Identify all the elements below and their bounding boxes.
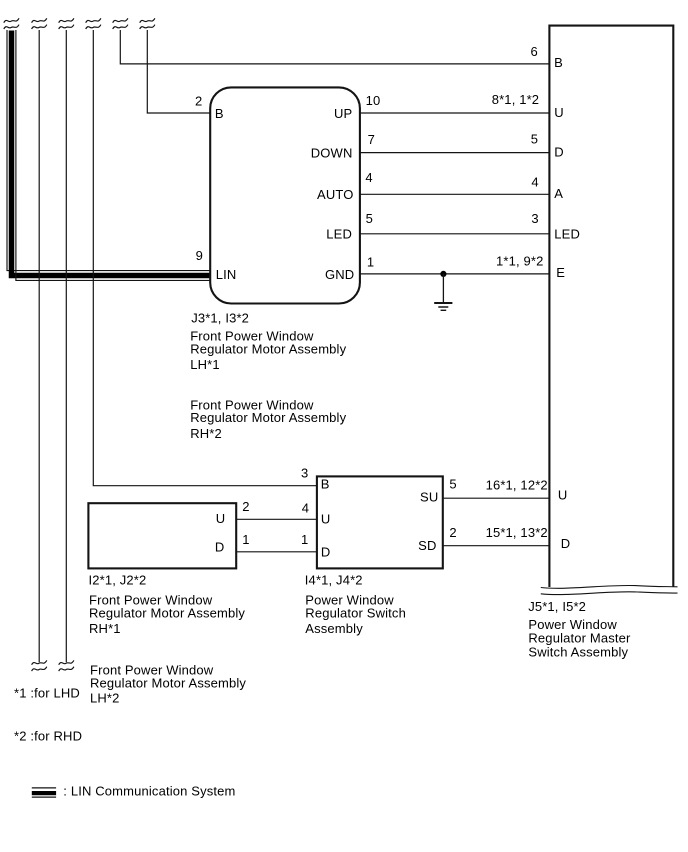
svg-text:*2 :for RHD: *2 :for RHD [14,729,82,744]
svg-text:A: A [554,186,563,201]
svg-text:LED: LED [326,227,352,242]
wire 5 vertical then right to master switch pin 6 B [120,30,549,64]
connector I2*1/J2*2 Front Power Window Regulator Motor Assembly RH (box) [88,503,236,568]
svg-text:UP: UP [334,106,352,121]
wire GND: J3 pin 1 to master switch pin 1*1/9*2 E [360,273,550,275]
svg-text:LED: LED [554,226,580,241]
svg-text:B: B [554,55,563,70]
wire UP: J3 pin 10 to master switch pin 8*1/1*2 U [360,112,550,114]
svg-text:GND: GND [325,267,354,282]
svg-text:4: 4 [302,501,309,516]
svg-text:LH*2: LH*2 [90,691,120,706]
svg-text:2: 2 [449,525,456,540]
svg-text:AUTO: AUTO [317,187,353,202]
svg-text:Regulator Motor Assembly: Regulator Motor Assembly [89,606,245,621]
wire break, wire 5 top [113,18,128,29]
svg-text:U: U [321,512,331,527]
svg-text:I2*1, J2*2: I2*1, J2*2 [89,572,147,587]
svg-text:Switch Assembly: Switch Assembly [528,645,628,660]
connector J5*1/I5*2 Power Window Regulator Master Switch Assembly (tall box, broken bottom) [549,26,673,587]
svg-text:9: 9 [196,248,203,263]
svg-text:J3*1, I3*2: J3*1, I3*2 [191,311,249,326]
svg-text:15*1, 13*2: 15*1, 13*2 [486,525,548,540]
svg-text:SD: SD [418,538,436,553]
svg-text:16*1, 12*2: 16*1, 12*2 [486,477,548,492]
svg-text:Regulator Motor Assembly: Regulator Motor Assembly [190,342,346,357]
wire U: I2 pin 2 to switch assembly pin 4 U [236,518,317,520]
break wave at master switch box bottom [541,585,678,594]
svg-text:U: U [216,511,226,526]
svg-text:D: D [554,144,564,159]
wire 6 vertical then right to J3 pin 2 B [147,30,210,113]
svg-text:U: U [558,487,568,502]
ground symbol [434,303,452,310]
wire 2 vertical (to bottom break) [38,30,40,662]
wire AUTO: J3 pin 4 to master switch pin 4 A [360,193,550,195]
svg-text:D: D [561,536,571,551]
wire break, wire 2 bottom [32,660,47,671]
wire 3 vertical (to bottom break) [65,30,67,662]
svg-text:4: 4 [531,175,538,190]
svg-text:I4*1, J4*2: I4*1, J4*2 [305,572,363,587]
svg-text:5: 5 [531,131,538,146]
wire D: I2 pin 1 to switch assembly pin 1 D [236,551,317,553]
svg-text:2: 2 [242,499,249,514]
svg-text:U: U [554,105,564,120]
wire break, LIN bus wire top [4,18,19,29]
svg-text:7: 7 [368,132,375,147]
svg-text:Regulator Motor Assembly: Regulator Motor Assembly [90,676,246,691]
wire break, wire 4 top [86,18,101,29]
wire break, wire 3 bottom [59,660,74,671]
svg-text:3: 3 [531,211,538,226]
svg-text:J5*1, I5*2: J5*1, I5*2 [528,599,586,614]
svg-text:B: B [321,476,330,491]
svg-text:LH*1: LH*1 [190,357,220,372]
wire break, wire 2 top [32,18,47,29]
svg-text:RH*2: RH*2 [190,426,222,441]
svg-text:Assembly: Assembly [305,621,363,636]
wire SU: switch assembly pin 5 to master switch pin 16*1/12*2 U [443,497,550,499]
svg-text:B: B [215,106,224,121]
wire 4 vertical then right to switch assembly pin 3 B [93,30,317,486]
wire LIN bus (triple line) from top break to J3 pin 9 LIN [7,30,210,280]
wire break, wire 3 top [59,18,74,29]
svg-text:SU: SU [420,489,438,504]
svg-text:1*1, 9*2: 1*1, 9*2 [496,254,543,269]
svg-text:: LIN Communication System: : LIN Communication System [63,783,235,798]
connector J3*1/I3*2 Front Power Window Regulator Motor Assembly LH (rounded box) [210,87,360,303]
svg-text:3: 3 [301,466,308,481]
svg-text:Regulator Motor Assembly: Regulator Motor Assembly [190,410,346,425]
svg-text:D: D [321,544,331,559]
svg-text:1: 1 [242,532,249,547]
svg-text:5: 5 [366,211,373,226]
svg-text:RH*1: RH*1 [89,621,121,636]
wire ground drop [442,274,444,302]
svg-text:1: 1 [367,255,374,270]
svg-text:1: 1 [301,532,308,547]
svg-text:2: 2 [195,93,202,108]
wire SD: switch assembly pin 2 to master switch pin 15*1/13*2 D [443,545,550,547]
svg-text:Regulator Master: Regulator Master [528,630,631,645]
svg-text:E: E [556,265,565,280]
svg-text:LIN: LIN [216,267,237,282]
svg-text:10: 10 [366,93,381,108]
svg-text:5: 5 [449,477,456,492]
svg-text:D: D [215,540,225,555]
svg-text:DOWN: DOWN [311,145,353,160]
wire LED: J3 pin 5 to master switch pin 3 LED [360,233,550,235]
svg-text:4: 4 [365,170,372,185]
wire DOWN: J3 pin 7 to master switch pin 5 D [360,152,550,154]
connector I4*1/J4*2 Power Window Regulator Switch Assembly (box) [317,476,443,568]
svg-text:Regulator Switch: Regulator Switch [305,606,406,621]
junction node on GND wire [440,271,446,277]
svg-text:*1 :for LHD: *1 :for LHD [14,686,80,701]
svg-text:6: 6 [531,44,538,59]
wire break, wire 6 top [140,18,155,29]
legend symbol: LIN communication system triple line [32,788,56,797]
svg-text:8*1, 1*2: 8*1, 1*2 [492,92,539,107]
